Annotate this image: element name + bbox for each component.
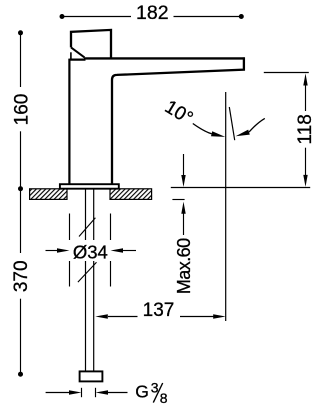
base flange	[60, 184, 119, 189]
faucet body top line	[69, 58, 85, 60]
body left edge	[68, 59, 70, 185]
svg-text:370: 370	[11, 260, 32, 292]
handle front tip stub	[70, 52, 72, 59]
G3/8 right tick	[95, 388, 97, 397]
deck bottom tick	[172, 199, 184, 201]
left dimension dots	[18, 30, 23, 35]
svg-text:G: G	[135, 382, 149, 402]
svg-text:160: 160	[11, 94, 32, 126]
dimension 182 line	[62, 16, 241, 18]
svg-text:118: 118	[295, 114, 316, 144]
svg-text:182: 182	[136, 2, 169, 24]
left leader curve to vertical line	[193, 124, 212, 134]
countertop deck hatch right	[110, 189, 152, 200]
spout top edge	[84, 57, 245, 59]
Max.60 top arrow	[183, 154, 185, 177]
hose end fitting G3/8	[80, 371, 103, 381]
countertop deck hatch left	[30, 189, 67, 200]
dimension 137 line left part	[108, 316, 138, 318]
dimension 137 left arrow	[95, 314, 108, 318]
G3/8 right arrow	[108, 392, 128, 394]
hose break slash lower	[78, 262, 97, 282]
dimension 118 bottom arrow	[305, 148, 307, 175]
hose break slash upper	[79, 218, 95, 237]
G3/8 left tick	[81, 388, 83, 397]
Max.60 bottom arrow	[181, 202, 185, 214]
water stream vertical line	[225, 92, 227, 321]
dimension Ø34 right arrow	[122, 250, 136, 252]
supply hose right line	[93, 189, 95, 371]
dimension Ø34 left arrow	[46, 250, 59, 252]
dimension 118 top extension line	[264, 72, 309, 74]
dimension Ø34 extension lines	[70, 214, 111, 287]
stream tilted line 10deg	[229, 107, 234, 140]
G3/8 left arrow	[46, 392, 70, 394]
svg-text:Ø34: Ø34	[73, 242, 108, 263]
svg-text:137: 137	[143, 300, 175, 321]
faucet handle lever	[71, 30, 111, 58]
deck top extension line	[171, 187, 310, 189]
dimension 137 line right part	[180, 316, 214, 318]
svg-text:8: 8	[160, 390, 168, 406]
supply hose left line	[85, 189, 87, 371]
left dimension line 160/370	[20, 33, 22, 374]
dimension Ø34 text	[72, 240, 108, 261]
dimension 118 top arrow	[303, 74, 307, 86]
dimension 182 end dots	[60, 14, 65, 19]
dimension 137 right arrow	[213, 314, 226, 318]
right leader curve to tilted line	[249, 118, 265, 132]
svg-text:Max.60: Max.60	[174, 238, 194, 294]
body right edge + spout underside + spout tip edge	[112, 57, 244, 184]
